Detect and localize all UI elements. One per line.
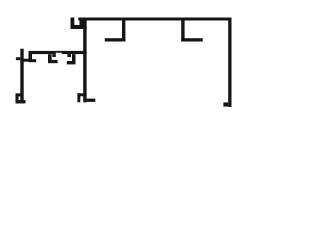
rail web left <box>29 51 33 62</box>
frame right wall bottom left foot <box>223 102 228 106</box>
rail web right <box>72 54 76 64</box>
frame left wall bottom cap <box>77 93 86 96</box>
frame right wall <box>228 18 231 108</box>
rail plate underside notch (white) <box>56 53 62 55</box>
post <box>20 49 23 104</box>
frame left wall <box>83 21 86 103</box>
hanging L1 left foot <box>105 38 126 41</box>
frame left wall bottom right foot <box>87 99 96 102</box>
rail web center <box>48 54 52 63</box>
frame top-left junction block <box>80 18 87 30</box>
rail web center foot <box>52 60 58 63</box>
frame top-left hook bottom <box>71 25 87 29</box>
hanging L2 vertical <box>181 21 184 42</box>
rail stub A <box>52 54 56 57</box>
frame top-left hook arm <box>71 18 75 30</box>
hanging L1 vertical <box>122 21 125 42</box>
rail plate <box>29 51 87 54</box>
rail web left foot <box>32 59 36 62</box>
post bottom plate <box>16 100 26 103</box>
hanging L2 right foot <box>181 38 203 41</box>
rail web right foot <box>67 61 72 64</box>
rail stub B <box>67 54 71 57</box>
post bottom arm <box>16 93 19 103</box>
frame top edge <box>78 18 231 21</box>
post bottom arm cap <box>16 93 21 96</box>
frame left wall bottom tab <box>77 93 80 102</box>
post connector right <box>24 59 29 62</box>
post tick left <box>16 57 20 60</box>
